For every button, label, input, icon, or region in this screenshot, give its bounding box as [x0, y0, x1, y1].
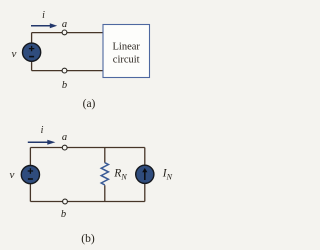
svg-text:v: v — [10, 169, 15, 181]
current source IN (b) — [136, 165, 154, 183]
svg-text:(a): (a) — [83, 98, 96, 110]
voltage source v (b) — [21, 166, 39, 184]
resistor RN zigzag (b) — [101, 163, 108, 185]
svg-text:b: b — [62, 80, 67, 91]
svg-text:i: i — [42, 10, 45, 21]
node b (a) — [62, 68, 67, 73]
wire resistor branch leads (b) — [104, 148, 106, 202]
svg-text:v: v — [12, 48, 17, 60]
wire bottom rail (b) — [30, 201, 144, 203]
node a (a) — [62, 30, 67, 35]
wire current source branch leads (b) — [144, 148, 146, 202]
svg-text:b: b — [61, 209, 66, 220]
node a (b) — [62, 145, 67, 150]
node b (b) — [63, 199, 68, 204]
current arrow i (b) — [28, 140, 56, 145]
wire left branch (a) — [31, 33, 33, 71]
svg-text:a: a — [62, 19, 67, 30]
wire bottom rail (a) — [32, 70, 103, 72]
current arrow i (a) — [31, 23, 57, 28]
wire top rail (a) — [32, 32, 103, 34]
linear circuit box (a) — [103, 25, 150, 78]
svg-text:Linear: Linear — [112, 42, 140, 53]
voltage source v (a) — [23, 43, 41, 61]
wire left branch (b) — [29, 148, 31, 202]
svg-text:i: i — [41, 125, 44, 136]
svg-text:(b): (b) — [81, 233, 95, 245]
svg-text:circuit: circuit — [113, 55, 140, 66]
svg-text:a: a — [62, 132, 67, 143]
wire top rail (b) — [30, 147, 144, 149]
